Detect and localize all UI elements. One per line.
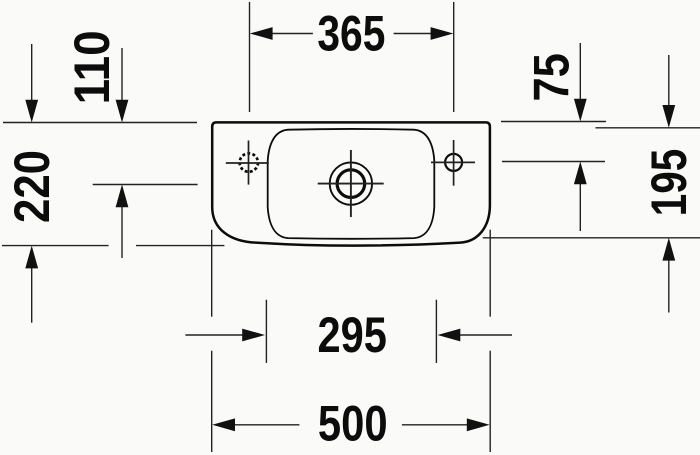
dim 195: lower arrow shaft [668,260,670,313]
dim 220: upper arrow shaft [31,44,33,102]
dim 295: left extension line [265,300,267,363]
dim 220: bottom reference line right part [136,245,224,247]
dim 220: lower arrowhead [25,246,38,269]
dim 500: right extension line upper segment [489,230,491,317]
dim 195: bottom reference line [483,237,700,239]
dim 195: top reference line [596,127,700,129]
dim 110: upper arrow shaft [121,48,123,102]
dim 75: upper arrow shaft [579,43,581,101]
dim 365: left arrowhead [250,27,273,40]
dim 75: top reference line [501,121,606,123]
washbasin outer outline [212,122,490,245]
dim 500: left extension line upper segment [211,230,213,317]
dim 110: lower arrow shaft [121,207,123,259]
dim 195: upper arrowhead [662,105,675,128]
dim 295: left arrow shaft [185,334,243,336]
optional hole dotted circle [240,153,258,171]
svg-text:365: 365 [317,5,385,61]
dim 295: right arrowhead [438,329,461,342]
dim 500: right extension line lower segment [489,351,491,452]
dim 365: left arrow shaft [272,33,313,35]
drain centre cross horizontal [318,183,384,185]
dim 500: left extension line lower segment [211,351,213,452]
optional hole cross vertical [248,141,250,185]
dim 110: lower arrowhead [116,185,129,208]
dim 365: left extension line [249,2,251,112]
tap hole cross vertical [453,140,455,186]
dim 110: upper arrowhead [116,100,129,123]
dim 75: upper arrowhead [574,99,587,122]
svg-text:110: 110 [64,30,120,104]
optional hole cross horizontal [226,162,269,164]
dim 220: lower arrow shaft [31,268,33,323]
washbasin inner bowl outline [268,129,435,239]
tap hole cross horizontal [431,161,475,163]
dim 75: tap-hole centre reference line [502,161,605,163]
dim 195: upper arrow shaft [668,55,670,107]
dim 195: lower arrowhead [662,238,675,261]
dim 75: lower arrowhead [574,162,587,185]
dim 110: drain centre reference line [93,184,198,186]
dim 365: right arrowhead [431,27,454,40]
drain outer circle [330,162,372,204]
dim 365: right extension line [453,2,455,112]
dim 75: lower arrow shaft [579,184,581,232]
svg-text:220: 220 [4,150,60,223]
drain centre cross vertical [350,150,352,217]
svg-text:75: 75 [524,53,580,101]
svg-text:295: 295 [318,307,387,363]
dim 500: left arrow shaft [234,424,299,426]
dim 110/220: top reference line [3,122,197,124]
tap hole circle [445,154,462,171]
dim 500: left arrowhead [212,418,235,431]
dim 365: right arrow shaft [394,33,432,35]
drain inner circle [337,170,365,198]
dim 500: right arrow shaft [402,424,468,426]
dim 220: bottom reference line left part [2,245,109,247]
dim 220: upper arrowhead [25,100,38,123]
dim 295: right extension line [435,300,437,363]
dim 500: right arrowhead [467,418,490,431]
dim 295: left arrowhead [242,329,265,342]
dim 295: right arrow shaft [460,334,513,336]
svg-text:195: 195 [641,149,697,217]
svg-text:500: 500 [318,395,388,451]
